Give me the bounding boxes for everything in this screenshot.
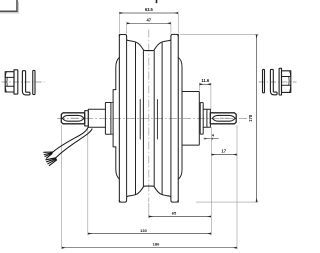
dim 4 (tiny, right of collar) xyxy=(204,132,219,139)
dim 63.5 xyxy=(119,7,178,33)
stray tick top center xyxy=(156,0,158,3)
extension line at left axle shoulder (x=87.8) xyxy=(87,129,89,236)
horizontal axle centerline xyxy=(57,117,248,119)
svg-text:130: 130 xyxy=(140,228,147,233)
dim 17 xyxy=(211,148,237,154)
svg-text:11.6: 11.6 xyxy=(201,78,209,83)
svg-text:17: 17 xyxy=(222,148,227,153)
left axle nut hex body xyxy=(5,72,14,92)
right tab washer xyxy=(270,69,277,94)
right nut hex facet lines xyxy=(282,77,291,86)
svg-text:178: 178 xyxy=(248,114,253,122)
left axle step xyxy=(85,111,89,128)
wire broom upper xyxy=(44,152,53,158)
right cylinder (brake mount) xyxy=(182,92,199,146)
right flat washer xyxy=(263,69,265,92)
left spline lens xyxy=(62,115,84,121)
extension line at left axle end (x=61.6) xyxy=(61,126,63,250)
dim 186 xyxy=(62,242,237,248)
right lens centerline dashes xyxy=(220,117,228,119)
left flange face (full height chord) xyxy=(118,35,120,203)
left flat washer xyxy=(33,70,35,94)
left tab washer xyxy=(22,71,30,95)
left collar xyxy=(105,103,111,135)
extension line at right spline start (x=211.3) xyxy=(210,127,212,235)
right collar xyxy=(200,103,203,135)
right axle barrel xyxy=(203,109,210,127)
left bulge contour xyxy=(116,58,120,180)
dim 65 xyxy=(149,210,212,216)
right nut chamfer arcs xyxy=(290,71,291,93)
left hardware centerline xyxy=(2,81,45,83)
dim 130 xyxy=(88,228,212,234)
left ring band xyxy=(113,90,116,147)
wire broom lower xyxy=(46,158,57,166)
valley kink verticals xyxy=(135,42,137,194)
svg-text:47: 47 xyxy=(147,18,152,23)
right flange face xyxy=(177,34,179,202)
wire 1 (upper) xyxy=(52,127,88,152)
dim 47 xyxy=(127,18,171,34)
vertical centerline xyxy=(148,30,150,203)
dim 11.6 xyxy=(199,78,211,109)
right bulge contour xyxy=(178,58,182,180)
svg-text:186: 186 xyxy=(153,242,160,247)
right splined axle xyxy=(210,113,236,124)
wire 2 (lower) xyxy=(56,129,92,158)
left splined axle xyxy=(61,113,84,124)
left nut hex facet lines xyxy=(5,77,14,86)
valley floor verticals xyxy=(142,51,144,186)
left axle barrel xyxy=(88,109,105,127)
left lens centerline dashes xyxy=(71,117,78,119)
left collar seams xyxy=(111,103,113,135)
inner hub cylinder xyxy=(139,100,141,140)
svg-text:63.5: 63.5 xyxy=(145,7,154,12)
left nut chamfer arcs xyxy=(5,72,6,92)
right hardware centerline xyxy=(259,81,297,83)
rim outline bottom xyxy=(119,186,178,202)
right axle nut hex body xyxy=(282,71,291,93)
extension line at right axle end (x=237) xyxy=(236,125,238,249)
right nut flange xyxy=(279,68,281,95)
svg-text:65: 65 xyxy=(172,210,177,215)
left nut flange xyxy=(14,70,18,94)
right flange inner face xyxy=(170,40,172,196)
border frame corner (top-left) xyxy=(0,0,18,13)
svg-text:4: 4 xyxy=(212,132,215,137)
left flange inner face xyxy=(126,40,128,196)
rim outline top: flange tops + valley xyxy=(119,34,178,50)
right spline lens xyxy=(212,115,235,121)
dim 178 (vertical, right) xyxy=(180,34,259,202)
